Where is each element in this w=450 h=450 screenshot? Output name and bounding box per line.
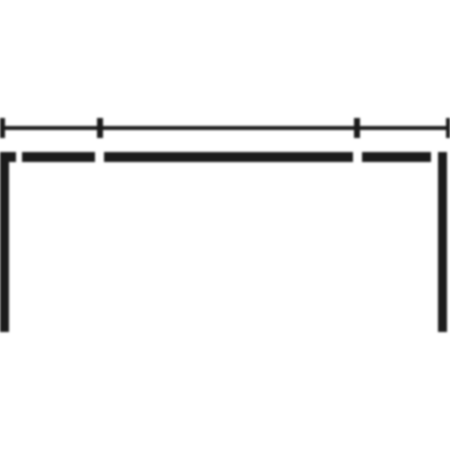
crossbar dash segment A (top-left corner piece) xyxy=(0,152,16,161)
dimension line (horizontal measure line across top) xyxy=(0,126,450,130)
tick mark 2 xyxy=(97,118,103,138)
crossbar dash segment D xyxy=(362,152,431,161)
crossbar dash segment B xyxy=(22,152,95,161)
tick mark 3 xyxy=(354,118,360,138)
crossbar dash segment C (long middle dash) xyxy=(104,152,353,161)
tick mark 4 (right end, clipped at edge) xyxy=(446,118,450,137)
right post xyxy=(438,152,447,332)
left post xyxy=(0,152,9,332)
tick mark 1 (left end, clipped at edge) xyxy=(0,118,5,137)
